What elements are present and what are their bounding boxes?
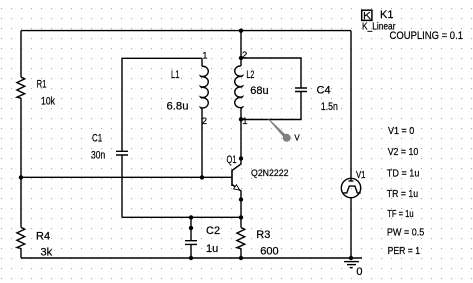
node ground junction bbox=[349, 256, 353, 260]
node top-L2 junction bbox=[239, 29, 243, 33]
node C2 pin junction bbox=[189, 226, 193, 230]
wire top rail bbox=[21, 30, 351, 32]
resistor R1 bbox=[17, 77, 25, 98]
node C2 bottom junction bbox=[189, 256, 193, 260]
voltage source V1 bbox=[341, 178, 360, 197]
node L2 pin1 junction bbox=[239, 117, 243, 121]
wire L1 bottom lead bbox=[201, 108, 203, 177]
wire C1 bottom down bbox=[121, 155, 123, 217]
wire C2 bottom lead bbox=[190, 244, 192, 258]
svg-text:TF = 1u: TF = 1u bbox=[387, 208, 413, 220]
svg-text:K1: K1 bbox=[380, 9, 393, 21]
svg-text:Q1: Q1 bbox=[227, 154, 237, 166]
svg-text:PER = 1: PER = 1 bbox=[388, 245, 421, 257]
wire L2 bottom lead bbox=[240, 108, 242, 119]
coupling K1 symbol box bbox=[362, 10, 372, 20]
svg-text:2: 2 bbox=[202, 116, 207, 127]
svg-text:1: 1 bbox=[202, 51, 207, 62]
svg-text:TD = 1u: TD = 1u bbox=[387, 167, 420, 179]
node emitter pin junction bbox=[239, 197, 243, 201]
svg-text:L1: L1 bbox=[171, 69, 180, 81]
svg-text:V1 = 0: V1 = 0 bbox=[388, 125, 414, 137]
wire left rail middle bbox=[20, 98, 22, 227]
svg-text:R3: R3 bbox=[256, 229, 270, 241]
svg-text:1.5n: 1.5n bbox=[321, 101, 338, 113]
svg-text:0: 0 bbox=[356, 266, 362, 278]
capacitor C2 bbox=[185, 241, 197, 245]
node L2 pin2 junction bbox=[239, 56, 243, 60]
node collector pin junction bbox=[239, 156, 243, 160]
wire right rail bbox=[350, 31, 352, 182]
svg-text:3k: 3k bbox=[41, 247, 53, 259]
svg-text:10k: 10k bbox=[41, 95, 55, 107]
node L1 base junction bbox=[200, 175, 204, 179]
svg-text:TR = 1u: TR = 1u bbox=[387, 188, 418, 200]
svg-text:V2 = 10: V2 = 10 bbox=[388, 146, 419, 158]
ground 0 bbox=[344, 262, 359, 268]
wire C4 bottom branch bbox=[241, 92, 301, 120]
svg-text:C2: C2 bbox=[206, 225, 220, 237]
node base-left junction bbox=[19, 175, 23, 179]
svg-text:COUPLING = 0.1: COUPLING = 0.1 bbox=[390, 30, 464, 42]
wire base row bbox=[21, 176, 232, 178]
svg-text:V1: V1 bbox=[356, 169, 366, 181]
svg-text:R4: R4 bbox=[36, 231, 50, 243]
svg-text:L2: L2 bbox=[246, 69, 254, 81]
svg-text:600: 600 bbox=[260, 246, 278, 258]
node R3 bottom junction bbox=[239, 256, 243, 260]
wire mid row bbox=[122, 216, 241, 218]
svg-text:2: 2 bbox=[242, 50, 247, 61]
resistor R4 bbox=[17, 227, 25, 248]
wire C2 top lead bbox=[190, 217, 192, 240]
svg-text:1: 1 bbox=[242, 116, 247, 127]
svg-text:V: V bbox=[294, 133, 300, 142]
svg-text:C1: C1 bbox=[92, 132, 102, 144]
node C2 top junction bbox=[189, 215, 193, 219]
svg-text:R1: R1 bbox=[37, 78, 47, 90]
node emitter mid-row junction bbox=[239, 215, 243, 219]
wire bottom rail bbox=[21, 257, 362, 259]
wire below V1 bbox=[350, 198, 352, 258]
svg-text:6.8u: 6.8u bbox=[167, 100, 189, 112]
wire left rail upper bbox=[20, 31, 22, 77]
svg-text:PW = 0.5: PW = 0.5 bbox=[387, 227, 425, 239]
svg-text:30n: 30n bbox=[91, 149, 105, 161]
wire emitter column bbox=[240, 200, 242, 228]
wire collector column bbox=[240, 119, 242, 159]
wire L2 top stub bbox=[240, 31, 242, 66]
wire R3 bottom lead bbox=[240, 249, 242, 258]
svg-text:Q2N2222: Q2N2222 bbox=[251, 168, 289, 179]
svg-text:68u: 68u bbox=[250, 85, 268, 97]
capacitor C1 bbox=[116, 151, 128, 155]
transistor Q1 bbox=[232, 159, 241, 201]
svg-text:1u: 1u bbox=[206, 243, 218, 255]
wire C4 branch bbox=[241, 58, 301, 88]
probe V marker bbox=[268, 119, 301, 143]
inductor L1 bbox=[201, 66, 209, 108]
capacitor C4 bbox=[295, 88, 307, 92]
wire left rail lower bbox=[20, 249, 22, 259]
svg-text:C4: C4 bbox=[317, 84, 331, 96]
inductor L2 bbox=[235, 66, 243, 108]
wire L1 top to C1 top bbox=[122, 58, 202, 151]
resistor R3 bbox=[237, 228, 245, 249]
wire L1 top lead bbox=[201, 58, 203, 66]
